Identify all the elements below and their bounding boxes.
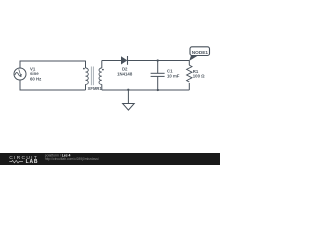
- svg-text:XFMR1: XFMR1: [88, 86, 103, 91]
- svg-text:60 Hz: 60 Hz: [30, 76, 41, 81]
- svg-text:100 Ω: 100 Ω: [193, 73, 205, 78]
- svg-text:http://circuitlab.com/c/289j0m: http://circuitlab.com/c/289j0mbzdavu/: [45, 157, 99, 161]
- svg-text:LAB: LAB: [26, 159, 39, 165]
- svg-text:1N4148: 1N4148: [117, 71, 133, 76]
- svg-text:NODE1: NODE1: [192, 50, 209, 55]
- svg-text:10 mF: 10 mF: [167, 73, 180, 78]
